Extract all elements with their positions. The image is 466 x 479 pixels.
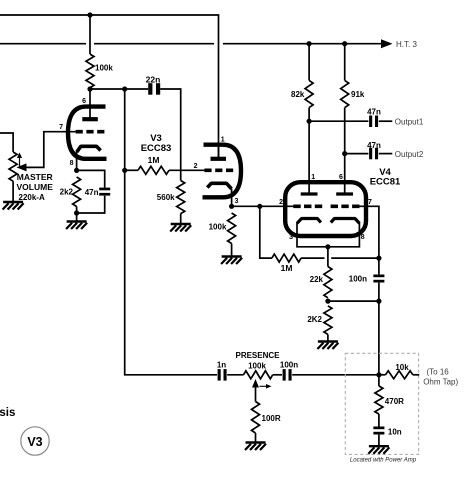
- node D plate junction V3a: [87, 86, 92, 91]
- presence rotation arrow right: [260, 385, 269, 387]
- svg-text:82k: 82k: [291, 90, 305, 99]
- svg-text:3: 3: [289, 234, 293, 241]
- pot rotation arrow up: [19, 156, 21, 168]
- wire W48 470R to 10n: [378, 414, 380, 427]
- resistor R-1M-b: [272, 254, 301, 262]
- svg-text:1: 1: [311, 174, 315, 181]
- resistor R-100k-a (anode load V3a): [86, 54, 94, 88]
- wire W27 82k bottom to V4 pin1: [308, 108, 310, 194]
- svg-text:6: 6: [339, 174, 343, 181]
- potentiometer MASTER VOLUME 220k-A element: [9, 152, 17, 181]
- svg-text:100k: 100k: [248, 361, 266, 370]
- wire W28 91k top: [344, 44, 346, 81]
- svg-text:1M: 1M: [148, 155, 160, 165]
- svg-text:MASTER: MASTER: [17, 172, 53, 182]
- wire W14 47n branch top: [77, 170, 105, 187]
- tube V4 plate bar B: [336, 192, 353, 195]
- capacitor C-22n: [148, 83, 152, 95]
- svg-text:Ohm Tap): Ohm Tap): [423, 378, 458, 387]
- wire W38 100n branch: [378, 258, 380, 274]
- wire W36 tail down crossing 1M-b: [327, 247, 329, 267]
- triode V3b plate bar: [211, 157, 227, 161]
- wire W43 100n-b to NFB node Q: [292, 374, 379, 376]
- svg-text:2k2: 2k2: [60, 188, 74, 197]
- wire W22 100k-b to ground: [231, 244, 233, 257]
- svg-text:100R: 100R: [262, 414, 281, 423]
- svg-text:ECC81: ECC81: [370, 177, 401, 188]
- wire W10 560k to ground: [180, 214, 182, 224]
- ground GND-2K2: [318, 340, 338, 342]
- svg-text:91k: 91k: [351, 90, 365, 99]
- ground GND-2k2: [67, 220, 87, 222]
- wire W44 100R to ground: [255, 433, 257, 443]
- capacitor C-10n: [373, 427, 384, 430]
- tube V4 grid dashes triode A: [293, 205, 322, 209]
- svg-text:PRESENCE: PRESENCE: [235, 351, 280, 360]
- wire W9b grid node down to 560k: [180, 170, 182, 180]
- svg-text:220k-A: 220k-A: [19, 193, 45, 202]
- node E junction 22n branch: [122, 86, 127, 91]
- triode V3b grid dashes: [204, 169, 233, 173]
- svg-text:100n: 100n: [280, 361, 298, 370]
- svg-text:6: 6: [82, 98, 86, 105]
- svg-text:2K2: 2K2: [307, 315, 322, 324]
- wire W1 top supply rail to V3b plate: [0, 15, 219, 159]
- wire W49 10n to ground: [378, 435, 380, 447]
- ground GND-10n: [369, 445, 389, 447]
- svg-text:100n: 100n: [349, 275, 367, 284]
- resistor R-82k: [305, 80, 313, 107]
- svg-text:10k: 10k: [395, 363, 409, 372]
- wire W25 1M-b crossing right to node K: [331, 257, 379, 259]
- ground GND-pot: [3, 201, 23, 203]
- svg-text:47n: 47n: [367, 108, 381, 117]
- svg-text:(To 16: (To 16: [427, 367, 450, 376]
- node L junction Output1: [307, 119, 312, 124]
- svg-text:1: 1: [221, 137, 225, 144]
- annotation circle V3: [21, 427, 49, 455]
- triode V3a grid dashes: [76, 130, 105, 134]
- wire W2 H.T. rail right segment: [223, 43, 383, 45]
- wire W3 node A down to R 100k: [89, 15, 91, 54]
- wire W33 47n-2 to Output2: [379, 153, 393, 155]
- ground GND-560k: [171, 223, 191, 225]
- svg-text:8: 8: [70, 160, 74, 167]
- svg-text:1n: 1n: [217, 360, 226, 369]
- triode V3a cathode hook: [77, 146, 101, 152]
- capacitor C-100n-tail: [373, 275, 384, 278]
- wire W2 H.T. rail mid segment: [94, 43, 214, 45]
- wire W13 cathode lead pin8 V3a: [76, 151, 78, 171]
- H.T.3 arrowhead: [381, 39, 393, 48]
- svg-text:470R: 470R: [385, 397, 404, 406]
- node G cathode junction V3a: [74, 168, 79, 173]
- capacitor C-47n-cathode: [99, 188, 110, 191]
- ground GND-100R: [246, 441, 266, 443]
- resistor R-2k2: [73, 177, 81, 207]
- svg-text:10n: 10n: [388, 428, 402, 437]
- svg-text:V3: V3: [27, 435, 42, 449]
- wire W47 node Q down to 470R: [378, 375, 380, 386]
- wire W15 47n branch bottom: [77, 196, 105, 213]
- wire W35 cathode bracket: [297, 223, 359, 247]
- node N cathode tail junction: [325, 244, 330, 249]
- wire W20 cathode lead pin3 V3b: [231, 189, 233, 207]
- svg-text:22n: 22n: [146, 75, 161, 85]
- svg-text:Located with Power Amp: Located with Power Amp: [350, 458, 417, 464]
- wire W2 H.T. rail left segment: [0, 43, 86, 45]
- wire W41 1n to presence pot: [227, 374, 243, 376]
- resistor R-2K2: [324, 306, 332, 335]
- node I cathode junction V3b: [229, 204, 234, 209]
- svg-text:2: 2: [194, 163, 198, 170]
- wire W17 pot top feed: [0, 133, 13, 152]
- svg-text:47n: 47n: [367, 141, 381, 150]
- node F junction 1M/long feed: [122, 168, 127, 173]
- triode V3a envelope arc: [68, 107, 107, 159]
- presence wiper arrow: [255, 384, 257, 402]
- resistor R-10k: [386, 371, 413, 379]
- wire W19 plate lead pin1 V3b: [218, 145, 220, 159]
- svg-text:560k: 560k: [157, 193, 175, 202]
- svg-text:VOLUME: VOLUME: [17, 182, 54, 192]
- resistor R-22k: [324, 267, 332, 298]
- tube V4 grid dashes triode B: [331, 205, 360, 209]
- node C junction W2/91k: [342, 41, 347, 46]
- wire W12 grid lead pin7 V3a to pot wiper corner: [29, 132, 76, 168]
- wire W24 1M-b to tail crossing left: [301, 257, 324, 259]
- capacitor C-47n-1: [369, 116, 372, 128]
- svg-text:7: 7: [59, 124, 63, 131]
- svg-text:7: 7: [368, 199, 372, 206]
- tube V4 plate bar A: [301, 192, 318, 195]
- triode V3b cathode hook: [207, 183, 231, 189]
- node A junction on W1: [87, 12, 92, 17]
- wire W40 2K2 to ground: [327, 334, 329, 341]
- svg-text:22k: 22k: [310, 275, 324, 284]
- tube V4 cathode hook A: [297, 219, 321, 224]
- svg-text:H.T. 3: H.T. 3: [396, 40, 417, 49]
- resistor R-560k grid leak: [177, 181, 185, 214]
- node O junction 22k/2K2/NFB: [325, 299, 330, 304]
- resistor R-100R: [252, 402, 260, 434]
- node H bottom junction V3a cathode: [74, 210, 79, 215]
- svg-text:2: 2: [279, 199, 283, 206]
- potentiometer PRESENCE 100k element: [244, 371, 273, 379]
- svg-text:ECC83: ECC83: [141, 143, 172, 154]
- svg-text:1M: 1M: [281, 263, 293, 273]
- node J junction grid feed/1M-b: [257, 204, 262, 209]
- svg-text:100k: 100k: [209, 223, 227, 232]
- svg-text:Output2: Output2: [395, 150, 424, 159]
- svg-text:ssis: ssis: [0, 407, 15, 419]
- wire W46 10k out to tap: [413, 374, 419, 376]
- svg-text:8: 8: [361, 234, 365, 241]
- wire W4 node D to 22n cap: [90, 88, 148, 90]
- wire W6 node E down to 1M junction: [124, 89, 126, 170]
- wire W18 pot bottom to ground: [12, 181, 14, 202]
- ground GND-100k-b: [222, 255, 242, 257]
- capacitor C-100n-b: [283, 369, 286, 381]
- wire W23 node J down to 1M-b: [260, 206, 272, 258]
- wire W16 2k2 bottom to ground: [76, 207, 78, 222]
- wire W39 100n to node P to NFB line: [378, 283, 380, 375]
- tube V4 cathode hook B: [331, 219, 360, 224]
- wire W9 1M to grid pin2 V3b: [169, 169, 204, 171]
- wire W45 10k to box edge: [379, 374, 386, 376]
- wire W31 47n-1 to Output1: [379, 120, 393, 122]
- svg-text:47n: 47n: [85, 188, 99, 197]
- wire W21 V3b cathode to V4 grid pin2: [232, 205, 294, 207]
- capacitor C-1n: [218, 369, 221, 381]
- wire W11 plate lead pin6 V3a: [89, 89, 91, 119]
- dashed enclosure Located with Power Amp: [345, 353, 418, 454]
- wire W30 node L to 47n-1: [309, 120, 368, 122]
- wire W7 long vertical to bottom rail: [125, 170, 217, 374]
- pot wiper arrow: [24, 166, 30, 168]
- wire W34 grid pin7 to node K: [360, 206, 379, 258]
- wire W5 22n to corner down to grid node: [160, 89, 181, 170]
- triode V3b envelope arc: [203, 145, 242, 198]
- resistor R-91k: [341, 80, 349, 107]
- node K junction grid7/1M/100n: [376, 256, 381, 261]
- node M junction Output2: [342, 151, 347, 156]
- wire W26 82k top: [308, 44, 310, 81]
- svg-text:3: 3: [235, 198, 239, 205]
- wire W37 node O to node P: [328, 300, 379, 302]
- wire W8 node F to 1M: [125, 169, 138, 171]
- svg-text:Output1: Output1: [395, 118, 424, 127]
- wire W32 node M to 47n-2: [345, 153, 369, 155]
- resistor R-470R: [375, 386, 383, 414]
- node P junction 100n bottom: [376, 299, 381, 304]
- resistor R-100k-b cathode load: [228, 213, 236, 244]
- tube V4 envelope: [285, 182, 366, 236]
- triode V3a plate bar: [82, 117, 98, 121]
- svg-text:100k: 100k: [95, 64, 113, 73]
- resistor R-1M-a grid stopper: [138, 166, 169, 174]
- wire W29 91k bottom to V4 pin6: [344, 108, 346, 194]
- capacitor C-47n-2: [369, 148, 372, 160]
- wire W42 presence pot to 100n-b: [273, 374, 282, 376]
- node B junction W2/82k: [307, 41, 312, 46]
- node Q NFB input junction: [376, 372, 381, 377]
